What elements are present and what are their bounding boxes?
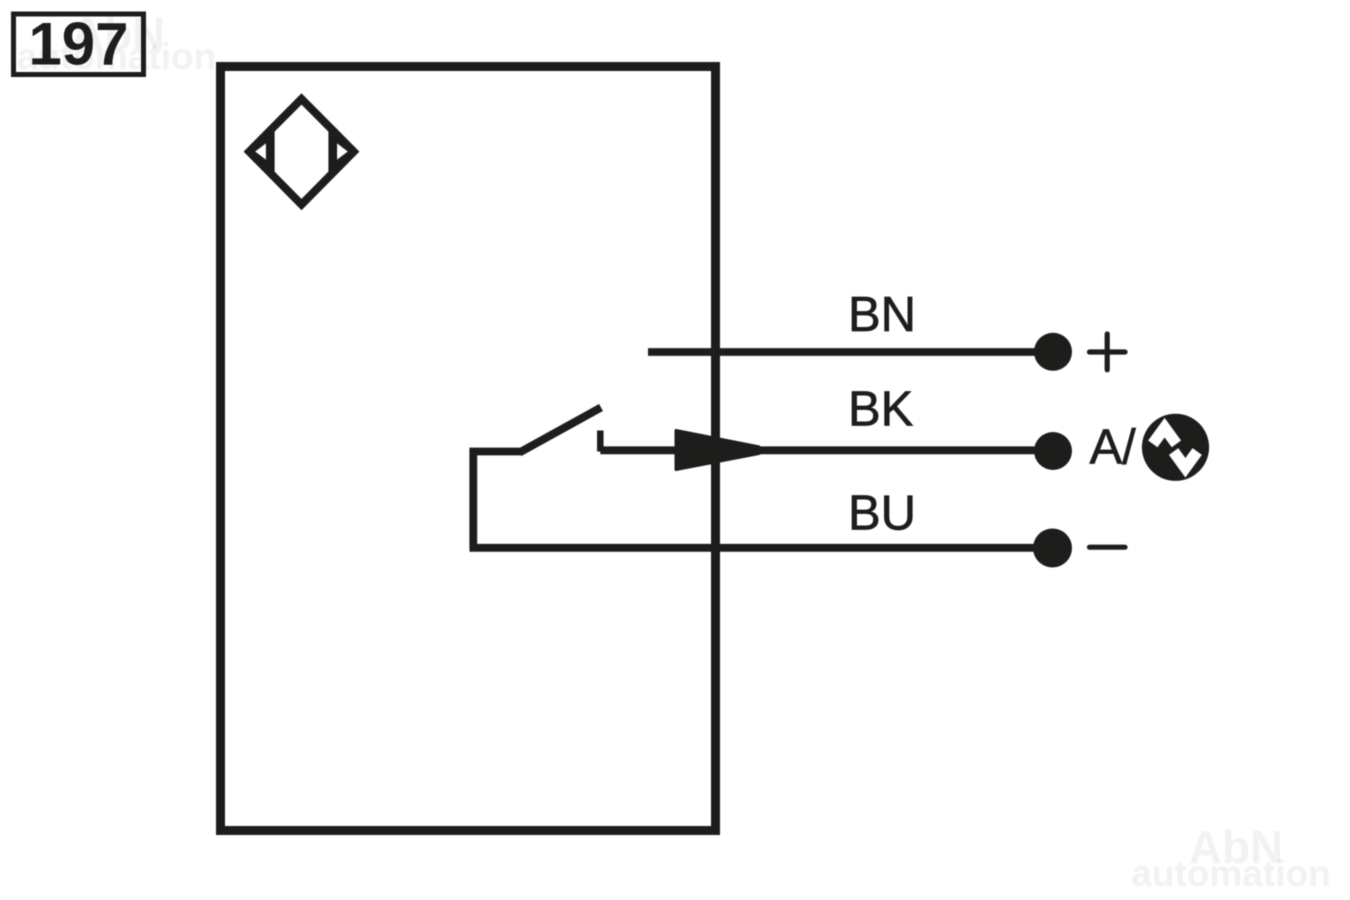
switch: vertical connector and stub wire [473,452,521,548]
svg-text:BN: BN [848,288,916,342]
figure number box 197 [14,11,144,78]
antivalent output icon: down chevron [1174,452,1198,468]
svg-text:automation: automation [17,36,216,77]
svg-text:automation: automation [1131,853,1330,894]
wire BK (black, output) [600,446,1036,454]
watermark top-left: AbN automation [17,8,216,78]
antivalent output icon: up chevron [1153,428,1177,444]
proximity sensor symbol: right vertical bar [328,131,337,173]
minus symbol [1090,545,1126,550]
proximity sensor symbol: right triangle [336,139,353,165]
terminal dot BN [1034,333,1072,371]
antivalent output icon: circle [1142,414,1209,481]
svg-text:A/: A/ [1090,421,1137,475]
svg-text:BU: BU [848,487,916,541]
sensor body outline [221,67,716,831]
switch: fixed contact tick [597,431,604,452]
plus symbol [1090,334,1126,370]
svg-text:BK: BK [848,383,914,437]
proximity sensor symbol: left triangle [251,139,268,165]
wire BU (blue, -) [470,544,1037,552]
proximity sensor symbol: left vertical bar [266,130,275,173]
wire BN (brown, +) [648,348,1038,356]
terminal dot BK [1034,432,1072,470]
terminal dot BU [1033,529,1072,568]
watermark bottom-right: AbN automation [1131,821,1330,894]
arrowhead on BK wire [676,431,759,470]
proximity sensor symbol: diamond outline [249,99,354,205]
switch: movable blade (open contact) [520,408,602,453]
